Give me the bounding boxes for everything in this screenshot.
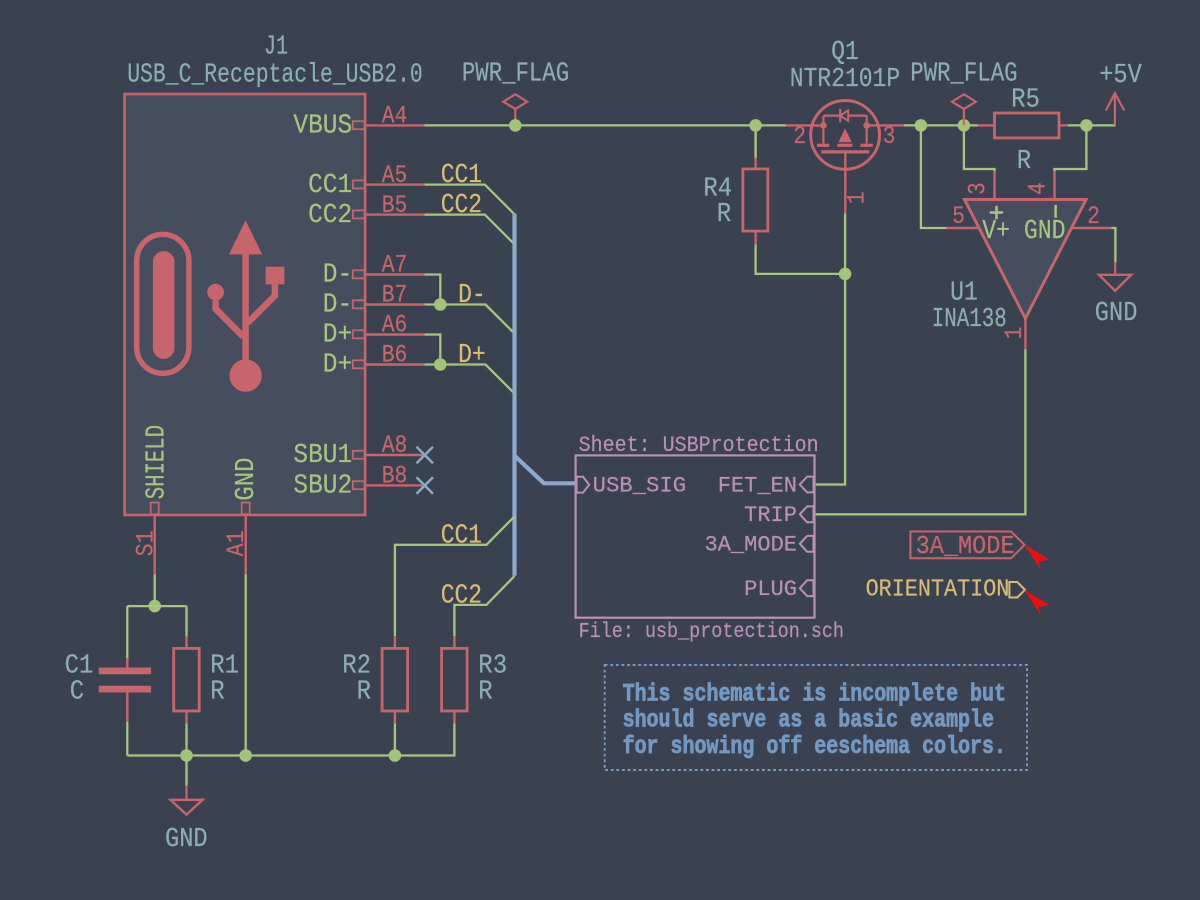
U1 value INA138 (932, 304, 1007, 334)
U1 pin 5 (V+) (947, 202, 980, 231)
svg-text:B8: B8 (382, 462, 408, 491)
wire D- from A7/B7 (425, 275, 515, 334)
J1 pin B7 D- (323, 281, 425, 320)
label CC2 (bottom) (441, 581, 482, 611)
svg-text:D-: D- (458, 280, 486, 310)
svg-text:CC1: CC1 (308, 170, 352, 200)
svg-text:J1: J1 (264, 32, 288, 62)
wire to U1 pin 4 (1055, 125, 1087, 171)
svg-text:File: usb_protection.sch: File: usb_protection.sch (579, 620, 844, 644)
svg-text:should serve as a basic exampl: should serve as a basic example (623, 706, 994, 735)
svg-text:R: R (717, 199, 731, 229)
svg-text:S1: S1 (131, 530, 160, 556)
svg-text:INA138: INA138 (932, 304, 1007, 334)
wire S1 to junction (154, 574, 156, 606)
svg-text:3A_MODE: 3A_MODE (916, 531, 1015, 561)
J1 pin A6 D+ (323, 311, 425, 350)
junction D+ (434, 358, 447, 371)
junction Q1 gate / R4 / FET_EN (839, 268, 852, 281)
J1 pin name GND (rotated) (231, 458, 261, 501)
svg-text:R: R (210, 676, 224, 706)
hierarchical label 3A_MODE (910, 531, 1024, 561)
power flag PWR_FLAG (left) (462, 58, 569, 125)
wire R4 bottom to Q1 gate net (756, 244, 846, 274)
U1 reference (950, 277, 978, 307)
text note box (605, 665, 1027, 770)
svg-text:ORIENTATION: ORIENTATION (866, 576, 1010, 603)
wire C1 bottom (126, 722, 128, 756)
svg-text:A1: A1 (222, 530, 251, 556)
wire to U1 pin 5 (921, 125, 947, 228)
J1 USB trident logo (207, 220, 284, 392)
J1 pin A4 VBUS (293, 102, 424, 141)
note line 1 (623, 679, 1006, 708)
wire VBUS A4 to Q1 (425, 124, 787, 126)
svg-text:B7: B7 (382, 281, 408, 310)
J1 pin A5 CC1 (308, 161, 424, 200)
wire Q1 gate down (844, 213, 846, 274)
svg-text:PLUG: PLUG (744, 577, 797, 602)
svg-text:CC1: CC1 (441, 521, 482, 551)
label D+ (458, 340, 486, 370)
U1 pin 3 (+ input) (964, 171, 1004, 219)
svg-text:5: 5 (952, 202, 965, 231)
svg-text:PWR_FLAG: PWR_FLAG (462, 58, 569, 88)
wire CC1 from A5 (425, 185, 515, 215)
svg-text:A5: A5 (382, 161, 408, 190)
J1 pin A8 SBU1 (293, 431, 424, 470)
resistor R2 (382, 636, 408, 723)
svg-text:NTR2101P: NTR2101P (790, 64, 900, 94)
note line 2 (623, 706, 994, 735)
connector J1 USB_C_Receptacle_USB2.0 body (125, 94, 366, 515)
svg-text:D+: D+ (323, 320, 352, 350)
wire GND stem (185, 756, 187, 786)
svg-text:4: 4 (1024, 182, 1053, 195)
svg-text:USB_SIG: USB_SIG (593, 474, 687, 499)
Q1 pin number 3 (883, 122, 896, 151)
R5 value R (1017, 146, 1031, 176)
U1 pin 2 (output) (1072, 202, 1112, 231)
svg-text:D+: D+ (323, 350, 352, 380)
svg-text:A4: A4 (382, 102, 408, 131)
global label ORIENTATION (866, 576, 1025, 603)
wire FET_EN to Q1 gate (816, 274, 845, 485)
J1 pin A7 D- (323, 251, 425, 290)
wire to R1 top (185, 606, 187, 637)
wire to U1 pin 3 (964, 125, 995, 171)
sheet pin FET_EN (718, 473, 814, 498)
svg-text:USB_C_Receptacle_USB2.0: USB_C_Receptacle_USB2.0 (127, 60, 423, 90)
svg-text:SHIELD: SHIELD (142, 425, 172, 499)
svg-text:B5: B5 (382, 191, 408, 220)
U1 internal label V+ GND (982, 216, 1065, 246)
svg-text:R: R (357, 676, 371, 706)
R2 reference (342, 651, 371, 681)
ground GND (right) (1095, 262, 1138, 328)
label CC1 (top) (441, 160, 482, 190)
svg-text:2: 2 (1087, 202, 1100, 231)
sheet pin TRIP (744, 503, 813, 528)
svg-text:Sheet: USBProtection: Sheet: USBProtection (579, 433, 819, 458)
svg-text:GND: GND (1095, 298, 1138, 328)
svg-text:A7: A7 (382, 251, 408, 280)
svg-text:FET_EN: FET_EN (718, 473, 797, 498)
svg-text:D-: D- (323, 290, 352, 320)
svg-text:R: R (478, 676, 492, 706)
J1 pin B5 CC2 (308, 191, 424, 230)
C1 reference (65, 651, 94, 681)
svg-text:C: C (70, 676, 84, 706)
label CC1 (bottom) (441, 521, 482, 551)
resistor R5 (978, 113, 1068, 138)
power flag PWR_FLAG (right) (910, 58, 1017, 125)
junction S1 net (148, 600, 161, 613)
svg-text:1: 1 (842, 191, 871, 204)
J1 reference designator (264, 32, 288, 62)
wire CC2 from B5 (425, 215, 515, 245)
wire Q1 drain to R5 and +5V (904, 124, 1115, 126)
svg-text:Q1: Q1 (831, 37, 859, 67)
R1 value R (210, 676, 224, 706)
svg-text:PWR_FLAG: PWR_FLAG (910, 58, 1017, 88)
svg-text:CC1: CC1 (441, 160, 482, 190)
wire CC1 to R2 (395, 517, 515, 637)
resistor R3 (442, 636, 468, 723)
U1 pin 4 (- input) (1024, 171, 1056, 218)
wire ground rail (127, 754, 395, 756)
sheet pin 3A_MODE (705, 533, 814, 558)
J1 pin B8 SBU2 (293, 462, 424, 501)
junction VBUS / R4 (749, 119, 762, 132)
svg-text:R5: R5 (1011, 85, 1040, 115)
svg-text:SBU1: SBU1 (293, 440, 352, 470)
svg-text:GND: GND (165, 824, 208, 854)
wire CC2 to R3 (454, 576, 514, 636)
U1 pin 1 (output bottom) (1000, 319, 1029, 350)
R5 reference (1011, 85, 1040, 115)
R1 reference (210, 651, 239, 681)
wire to C1 top (126, 606, 128, 658)
cursor arrow 1 (1024, 544, 1049, 570)
J1 pin name SHIELD (rotated) (142, 425, 172, 499)
capacitor C1 (99, 658, 151, 722)
J1 pin S1 SHIELD (bottom) (131, 503, 160, 575)
svg-text:A8: A8 (382, 431, 408, 460)
svg-text:for showing off eeschema color: for showing off eeschema colors. (623, 732, 1006, 761)
junction rail R1/GND (180, 749, 193, 762)
Q1 pin number 1 (rotated) (842, 191, 871, 204)
R2 value R (357, 676, 371, 706)
junction rail R2 (389, 749, 402, 762)
ground GND (bottom left) (165, 786, 208, 854)
junction rail A1 (239, 749, 252, 762)
svg-text:2: 2 (793, 122, 806, 151)
wire A1 down (245, 574, 247, 755)
sheet file File: usb_protection.sch (579, 620, 844, 644)
wire S1 net horizontal (127, 605, 186, 607)
wire U1 pin 1 to sheet TRIP (816, 349, 1026, 514)
wire U1 pin 2 to GND (1111, 228, 1115, 262)
svg-text:CC2: CC2 (441, 190, 482, 220)
svg-text:3A_MODE: 3A_MODE (705, 533, 798, 558)
wire R4 top (754, 125, 756, 157)
R3 reference (478, 651, 507, 681)
bus USB_SIG vertical (512, 214, 516, 576)
sheet pin USB_SIG (577, 474, 687, 499)
wire R3 bottom (395, 724, 455, 756)
svg-text:A6: A6 (382, 311, 408, 340)
J1 pin B6 D+ (323, 341, 425, 380)
sheet name Sheet: USBProtection (579, 433, 819, 458)
wire R1 bottom (185, 724, 187, 756)
svg-text:3: 3 (883, 122, 896, 151)
hierarchical sheet USBProtection (576, 455, 815, 617)
transistor Q1 NTR2101P P-MOSFET (786, 100, 904, 213)
J1 value USB_C_Receptacle_USB2.0 (127, 60, 423, 90)
no-connect SBU1 (417, 447, 434, 464)
J1 pin A1 GND (bottom) (222, 503, 251, 575)
svg-text:This schematic is incomplete b: This schematic is incomplete but (623, 679, 1006, 708)
Q1 value NTR2101P (790, 64, 900, 94)
bus entry to sheet USB_SIG (515, 456, 576, 484)
svg-text:VBUS: VBUS (293, 111, 352, 141)
wire R2 bottom (394, 724, 396, 756)
svg-text:CC2: CC2 (441, 581, 482, 611)
svg-text:CC2: CC2 (308, 200, 352, 230)
junction U1 V+ sense (915, 119, 928, 132)
note line 3 (623, 732, 1006, 761)
sheet pin PLUG (744, 577, 813, 602)
R4 reference (703, 174, 732, 204)
junction D- (434, 298, 447, 311)
junction VBUS / PWR_FLAG (509, 119, 522, 132)
R4 value R (717, 199, 731, 229)
wire D+ from A6/B6 (425, 335, 515, 394)
no-connect SBU2 (417, 477, 434, 494)
svg-text:D+: D+ (458, 340, 486, 370)
svg-text:SBU2: SBU2 (293, 471, 352, 501)
svg-text:D-: D- (323, 260, 352, 290)
svg-text:U1: U1 (950, 277, 978, 307)
resistor R1 (174, 637, 200, 724)
Q1 pin number 2 (793, 122, 806, 151)
label D- (458, 280, 486, 310)
svg-text:3: 3 (964, 182, 993, 195)
resistor R4 (743, 125, 768, 244)
cursor arrow 2 (1024, 590, 1049, 616)
power symbol +5V (1099, 60, 1142, 125)
svg-text:B6: B6 (382, 341, 408, 370)
C1 value C (70, 676, 84, 706)
op-amp U1 INA138 body (965, 200, 1087, 319)
svg-text:R: R (1017, 146, 1031, 176)
svg-text:+5V: +5V (1099, 60, 1142, 90)
junction R5 right / +5V (1080, 119, 1093, 132)
svg-text:V+ GND: V+ GND (982, 216, 1065, 246)
J1 USB receptacle pill graphic (137, 234, 189, 373)
svg-text:TRIP: TRIP (744, 503, 797, 528)
label CC2 (top) (441, 190, 482, 220)
Q1 reference (831, 37, 859, 67)
junction PWR_FLAG right (958, 119, 971, 132)
R3 value R (478, 676, 492, 706)
svg-text:GND: GND (231, 458, 261, 501)
